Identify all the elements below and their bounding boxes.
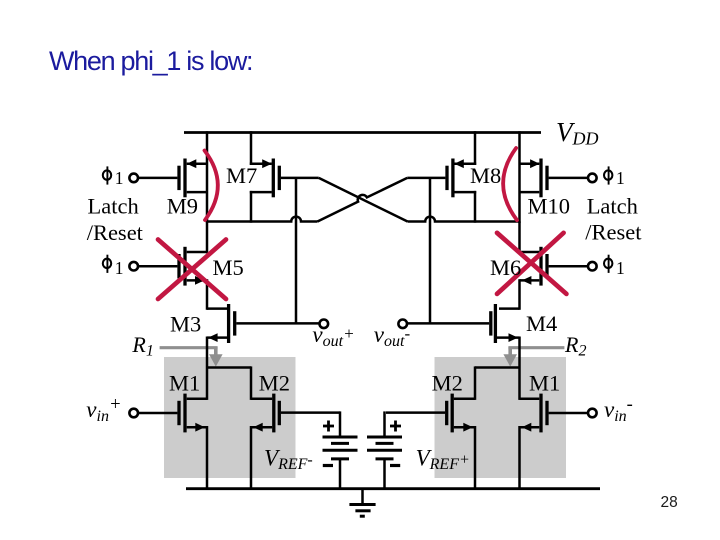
svg-text:M1: M1 (169, 371, 200, 396)
svg-text:1: 1 (616, 168, 625, 188)
svg-text:1: 1 (616, 258, 625, 278)
svg-text:M6: M6 (490, 255, 521, 280)
svg-text:M4: M4 (526, 311, 557, 336)
svg-text:/Reset: /Reset (585, 220, 642, 245)
svg-text:M7: M7 (226, 163, 257, 188)
svg-text:1: 1 (115, 258, 124, 278)
svg-text:M8: M8 (470, 163, 501, 188)
svg-text:R1: R1 (131, 332, 153, 359)
svg-text:Latch: Latch (587, 193, 638, 218)
svg-text:R2: R2 (564, 332, 586, 359)
svg-text:/Reset: /Reset (87, 220, 144, 245)
svg-text:M1: M1 (529, 371, 560, 396)
svg-text:M2: M2 (432, 371, 463, 396)
svg-text:vout-: vout- (374, 322, 411, 350)
svg-text:VDD: VDD (556, 117, 599, 149)
svg-text:Latch: Latch (88, 193, 139, 218)
svg-text:M10: M10 (528, 194, 571, 219)
svg-text:M5: M5 (213, 255, 244, 280)
svg-text:vin-: vin- (604, 395, 633, 425)
svg-text:vin+: vin+ (86, 395, 121, 425)
svg-text:M9: M9 (167, 194, 198, 219)
svg-text:M2: M2 (259, 371, 290, 396)
svg-text:vout+: vout+ (312, 322, 354, 350)
svg-text:M3: M3 (170, 312, 201, 337)
svg-text:1: 1 (115, 168, 124, 188)
